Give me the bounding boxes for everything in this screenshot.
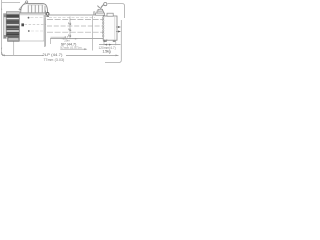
body line 3 bbox=[47, 31, 103, 33]
motor end strip bbox=[4, 14, 7, 39]
bottom line left arrowhead bbox=[2, 55, 5, 57]
callout stack line bbox=[69, 17, 71, 39]
bottom line right arrowhead bbox=[116, 55, 119, 57]
gearbox foot extension left bbox=[103, 42, 105, 45]
gear housing inner line bbox=[114, 16, 116, 40]
svg-text:4.7: 4.7 bbox=[103, 39, 108, 43]
step extension line a bbox=[44, 41, 46, 47]
gear housing bbox=[103, 16, 117, 40]
motor fins bbox=[28, 5, 45, 13]
extension line from motor bottom bbox=[13, 42, 15, 56]
arrow right of row A line bbox=[84, 48, 87, 50]
drum dark band mid1 bbox=[6, 21, 19, 23]
drum dark band top bbox=[6, 15, 19, 17]
body centerline bbox=[47, 25, 103, 27]
step extension line b bbox=[50, 39, 52, 44]
bolt hole upper bbox=[28, 17, 30, 19]
bolt centerline upper bbox=[31, 17, 47, 19]
clutch handle base plate bbox=[96, 13, 105, 15]
gear housing ribs bbox=[102, 17, 104, 37]
lever joint bbox=[20, 9, 22, 11]
gear housing foot right bbox=[113, 40, 116, 42]
dim line under row A bbox=[60, 48, 86, 50]
handle arm bbox=[101, 5, 104, 10]
drum right edge bbox=[18, 15, 20, 37]
rope anchor bbox=[21, 23, 24, 26]
collar node bbox=[46, 13, 49, 16]
right vertical extension with corner bbox=[105, 20, 121, 63]
arrowhead left top bbox=[1, 8, 2, 10]
gearbox foot extension right bbox=[115, 42, 117, 45]
extension line x92.5 bbox=[92, 16, 94, 51]
dimension line left vertical bbox=[1, 0, 3, 55]
svg-text:2LP (44.7): 2LP (44.7) bbox=[43, 53, 64, 57]
mount plate bbox=[20, 15, 45, 41]
drum dark band mid2 bbox=[6, 27, 19, 29]
body line 2 bbox=[47, 19, 103, 21]
handle rings bbox=[94, 11, 95, 15]
body top line bbox=[46, 14, 103, 16]
drum dark band bottom bbox=[6, 33, 19, 35]
motor hump bbox=[21, 4, 48, 13]
bottom dimension line right part bbox=[66, 54, 119, 56]
bolt centerline lower bbox=[31, 30, 46, 32]
gear housing foot left bbox=[104, 40, 107, 42]
handle knob bbox=[104, 3, 107, 6]
rope centerline bbox=[49, 16, 95, 18]
drum with cable bbox=[6, 15, 19, 37]
gear housing flange bbox=[107, 13, 113, 16]
drum bottom cap bbox=[8, 35, 20, 41]
svg-text:77mm (3.03): 77mm (3.03) bbox=[44, 58, 65, 62]
clutch lever bbox=[20, 2, 27, 9]
handle stub bbox=[97, 6, 99, 8]
drum top cap bbox=[6, 12, 19, 15]
right bottom dim line with arrows bbox=[99, 44, 121, 46]
corner bottom-left bbox=[2, 52, 5, 55]
plate right edge bbox=[43, 15, 45, 41]
dimension extension top bbox=[2, 2, 20, 4]
svg-text:1.5kg: 1.5kg bbox=[103, 50, 111, 54]
body bottom line 2 bbox=[51, 36, 66, 38]
hump base line bbox=[20, 12, 48, 14]
extension line x45 bbox=[45, 11, 47, 47]
body bottom line bbox=[50, 38, 103, 40]
right dim arrow upper bbox=[116, 26, 118, 28]
mini dim line bbox=[62, 38, 78, 40]
arrowhead left bottom bbox=[1, 48, 2, 50]
bottom dimension line left part bbox=[2, 54, 43, 56]
bolt hole lower bbox=[28, 30, 30, 32]
right dim arrow lower bbox=[116, 31, 118, 33]
extension from knob to right bbox=[108, 4, 125, 18]
